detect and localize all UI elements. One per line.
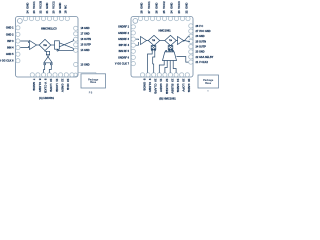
svg-text:T1B: T1B <box>152 40 156 42</box>
svg-text:8 CLKBV: 8 CLKBV <box>38 79 42 93</box>
svg-text:24 GND: 24 GND <box>169 3 173 14</box>
svg-text:26 GND: 26 GND <box>196 35 205 38</box>
svg-text:12 GNDV: 12 GNDV <box>61 79 65 93</box>
svg-text:20 VCC2: 20 VCC2 <box>51 1 55 14</box>
svg-text:16 GNDB: 16 GNDB <box>187 79 191 94</box>
svg-text:INN 4: INN 4 <box>7 47 14 50</box>
svg-text:28 V C: 28 V C <box>196 25 204 28</box>
svg-text:GNDRF 2: GNDRF 2 <box>118 32 130 35</box>
svg-text:26 GND: 26 GND <box>154 3 158 14</box>
svg-text:13 SLBBV: 13 SLBBV <box>170 79 174 94</box>
svg-text:10 CLAPB: 10 CLAPB <box>154 79 158 95</box>
svg-text:14 GNDB: 14 GNDB <box>176 79 180 94</box>
svg-text:22 VCCB: 22 VCCB <box>38 1 42 14</box>
svg-text:7 GNDB: 7 GNDB <box>32 79 36 92</box>
svg-text:INP RF 4: INP RF 4 <box>119 44 130 47</box>
svg-text:18 NC: 18 NC <box>64 5 68 14</box>
svg-text:28 GND: 28 GND <box>139 3 143 14</box>
svg-text:27 VCC1: 27 VCC1 <box>147 1 151 14</box>
svg-text:22 GSA SELBY: 22 GSA SELBY <box>196 56 214 59</box>
svg-text:19 GND: 19 GND <box>58 3 62 14</box>
svg-text:17 GND: 17 GND <box>81 33 90 36</box>
svg-text:12 CLKBB: 12 CLKBB <box>165 79 169 95</box>
svg-text:HMC561LC3: HMC561LC3 <box>41 26 57 30</box>
svg-text:15 LOPV: 15 LOPV <box>182 79 186 92</box>
svg-text:14 GND: 14 GND <box>81 49 90 52</box>
svg-text:GND 1: GND 1 <box>6 27 14 30</box>
svg-text:x: x <box>207 90 209 92</box>
svg-text:HMC1081: HMC1081 <box>159 28 172 32</box>
svg-text:Base: Base <box>90 81 97 84</box>
svg-text:(A) HMC561: (A) HMC561 <box>39 96 55 100</box>
svg-text:T5M: T5M <box>43 45 47 47</box>
svg-text:21 V CLK2: 21 V CLK2 <box>196 61 209 64</box>
svg-text:23 GND: 23 GND <box>196 51 205 54</box>
svg-text:9 CLKBV: 9 CLKBV <box>148 79 152 93</box>
svg-text:Base: Base <box>205 82 212 85</box>
svg-text:24 GND: 24 GND <box>25 3 29 14</box>
svg-text:18 GND: 18 GND <box>81 27 90 30</box>
svg-text:INP 3: INP 3 <box>7 40 14 43</box>
svg-text:P B: P B <box>89 92 93 94</box>
svg-text:11 LONB: 11 LONB <box>55 79 59 93</box>
svg-text:16 OUTN: 16 OUTN <box>81 38 92 41</box>
svg-text:9 V CLKB: 9 V CLKB <box>44 79 48 94</box>
svg-text:13 GND: 13 GND <box>81 63 90 66</box>
svg-text:22 GND: 22 GND <box>184 3 188 14</box>
svg-text:25 OUTN: 25 OUTN <box>196 40 207 43</box>
svg-text:27 VCC GND: 27 VCC GND <box>196 30 211 33</box>
svg-text:24 OUTP: 24 OUTP <box>196 46 207 49</box>
svg-text:GNDRF 3: GNDRF 3 <box>118 38 130 41</box>
svg-text:21 GND: 21 GND <box>45 3 49 14</box>
svg-text:25 VCC2: 25 VCC2 <box>162 1 166 14</box>
svg-text:10 LOPB: 10 LOPB <box>49 79 53 93</box>
svg-text:GNDRF 6: GNDRF 6 <box>118 56 130 59</box>
svg-text:GND 2: GND 2 <box>6 33 14 36</box>
svg-text:GND 5: GND 5 <box>6 53 14 56</box>
svg-text:23 VCC1: 23 VCC1 <box>32 1 36 14</box>
svg-text:13 NCB: 13 NCB <box>66 79 70 91</box>
svg-text:V GG CLK 6: V GG CLK 6 <box>0 60 14 63</box>
svg-text:(B) HMC1081: (B) HMC1081 <box>159 97 176 101</box>
svg-text:INN RF 5: INN RF 5 <box>119 50 130 53</box>
svg-text:11 GNDV: 11 GNDV <box>159 79 163 93</box>
svg-text:23 VCC3: 23 VCC3 <box>177 1 181 14</box>
svg-text:15 OUTP: 15 OUTP <box>81 44 92 47</box>
svg-text:GNDRF 1: GNDRF 1 <box>118 26 130 29</box>
svg-text:V GG CLK 7: V GG CLK 7 <box>115 63 130 66</box>
svg-text:8 GNDB: 8 GNDB <box>142 79 146 92</box>
svg-text:T1A: T1A <box>169 39 173 42</box>
